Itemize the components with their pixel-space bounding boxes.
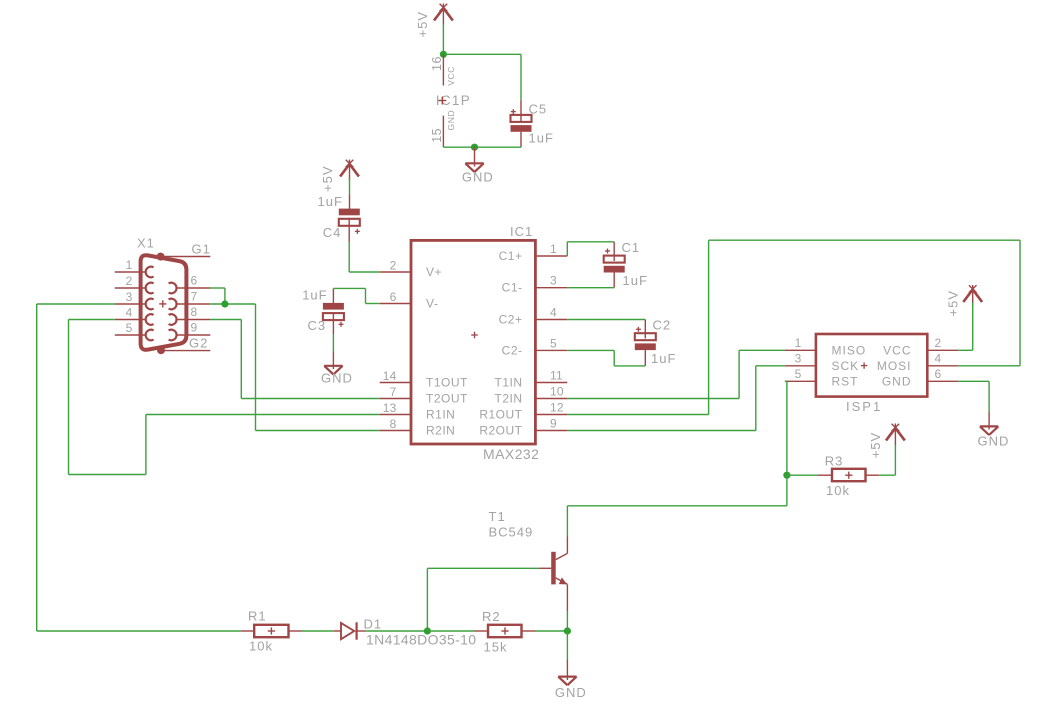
wire ISP1 GND to ground xyxy=(958,381,989,411)
svg-text:15: 15 xyxy=(430,128,444,143)
svg-text:C1: C1 xyxy=(622,240,641,255)
X1 pin 4 xyxy=(115,314,154,325)
wire C3 to ground xyxy=(332,334,334,352)
pin number 11 (IC1 T1IN) xyxy=(550,369,563,383)
svg-text:9: 9 xyxy=(550,417,557,431)
pin name C1+ xyxy=(499,249,523,263)
label +5V (top, rotated) xyxy=(415,11,430,38)
connector X1 shell xyxy=(141,255,187,350)
svg-text:GND: GND xyxy=(462,170,494,185)
pin number 5 (ISP1) xyxy=(795,367,802,381)
wire +5V to C4 xyxy=(349,178,351,195)
svg-text:6: 6 xyxy=(390,290,397,304)
svg-text:T2OUT: T2OUT xyxy=(426,392,468,406)
label C4 xyxy=(323,225,342,240)
svg-text:R1: R1 xyxy=(248,609,267,624)
svg-text:9: 9 xyxy=(191,321,198,335)
svg-text:5: 5 xyxy=(795,367,802,381)
ISP1 pin 5 RST xyxy=(785,380,816,382)
ground bottom (emitter) xyxy=(558,660,576,686)
capacitor C2 xyxy=(635,320,656,366)
svg-text:C2: C2 xyxy=(653,317,672,332)
value 1uF (C4) xyxy=(318,194,343,209)
junction D1-R2-base xyxy=(424,627,431,634)
wire R1 to D1 xyxy=(302,630,334,632)
svg-text:1uF: 1uF xyxy=(529,131,554,146)
wire T1 base to junction xyxy=(427,568,539,631)
wire T2IN to ISP1 MISO xyxy=(567,350,785,398)
wire ISP1 RST down to junction xyxy=(785,381,787,475)
pin number 5 (X1) xyxy=(126,321,133,335)
svg-text:VCC: VCC xyxy=(883,343,911,357)
label GND (top) xyxy=(462,170,494,185)
svg-text:1N4148DO35-10: 1N4148DO35-10 xyxy=(366,632,476,648)
pin name C1- xyxy=(502,281,523,295)
pin number 2 (ISP1) xyxy=(935,336,942,350)
svg-text:X1: X1 xyxy=(137,235,155,250)
svg-text:8: 8 xyxy=(390,417,397,431)
value 10k (R1) xyxy=(249,639,273,654)
junction X1 pins 6-7 xyxy=(221,300,228,307)
svg-text:1: 1 xyxy=(126,258,133,272)
pin name SCK xyxy=(832,359,860,373)
IC1 pin 11 T1IN xyxy=(536,382,568,384)
wire junction to R2 xyxy=(427,630,474,632)
pin name G2 xyxy=(189,336,208,351)
wire T1 emitter to junction xyxy=(566,611,568,631)
svg-text:2: 2 xyxy=(390,259,397,273)
svg-text:11: 11 xyxy=(550,369,563,383)
label +5V (ISP1, rotated) xyxy=(946,290,961,317)
label D1 xyxy=(364,617,383,632)
svg-text:10k: 10k xyxy=(826,483,850,498)
svg-text:10k: 10k xyxy=(249,639,273,654)
svg-text:C2+: C2+ xyxy=(499,313,523,327)
X1 pin 8 xyxy=(169,314,211,325)
ISP1 pin 2 VCC xyxy=(927,349,958,351)
op IC1P label xyxy=(436,93,471,108)
IC1 pin 13 R1IN xyxy=(380,414,411,416)
X1 pin 7 xyxy=(169,299,211,310)
svg-text:8: 8 xyxy=(191,305,198,319)
svg-text:MOSI: MOSI xyxy=(877,359,912,373)
pin number 9 (X1) xyxy=(191,321,198,335)
svg-text:MAX232: MAX232 xyxy=(483,446,539,462)
IC1 pin 4 C2+ xyxy=(536,319,568,321)
X1 pin 5 xyxy=(115,330,154,341)
wire junction to C5 top xyxy=(443,54,521,100)
pin number 13 (IC1 R1IN) xyxy=(383,401,397,415)
svg-text:R1OUT: R1OUT xyxy=(479,408,522,422)
svg-text:14: 14 xyxy=(383,369,397,383)
resistor R2 xyxy=(475,625,536,637)
ISP1 pin 6 GND xyxy=(927,380,958,382)
svg-text:10: 10 xyxy=(550,385,564,399)
svg-text:T1: T1 xyxy=(489,509,506,524)
svg-text:R2: R2 xyxy=(482,609,501,624)
svg-text:T2IN: T2IN xyxy=(494,392,522,406)
ISP1 pin 1 MISO xyxy=(785,349,816,351)
pin number 6 (X1) xyxy=(191,274,198,288)
pin name R2IN xyxy=(426,424,455,438)
label C2 xyxy=(653,317,672,332)
power +5V symbol (ISP1 VCC) xyxy=(963,285,982,306)
IC1 pin 9 R2OUT xyxy=(536,430,568,432)
svg-text:4: 4 xyxy=(550,306,557,320)
pin name R1OUT xyxy=(479,408,522,422)
svg-text:4: 4 xyxy=(935,352,942,366)
wire C4 to IC1 V+ xyxy=(349,242,380,272)
pin number 16 xyxy=(430,56,444,71)
wire IC1 C2+ to C2 xyxy=(567,319,645,321)
svg-text:7: 7 xyxy=(191,290,198,304)
svg-text:GND: GND xyxy=(321,370,353,385)
label C5 xyxy=(529,102,548,117)
pin number 10 (IC1 T2IN) xyxy=(550,385,564,399)
svg-text:16: 16 xyxy=(430,56,444,71)
svg-text:IC1: IC1 xyxy=(510,224,533,239)
svg-text:RST: RST xyxy=(832,374,859,388)
pin number 15 xyxy=(430,128,444,143)
ISP1 pin 3 SCK xyxy=(785,365,816,367)
svg-text:BC549: BC549 xyxy=(489,525,534,540)
pin name V- xyxy=(426,297,438,311)
IC1 pin 8 R2IN xyxy=(380,430,411,432)
X1 pin 9 xyxy=(169,330,211,341)
X1 pin 2 xyxy=(115,283,154,294)
label GND (ISP1) xyxy=(978,433,1010,448)
ISP1 pin 4 MOSI xyxy=(927,365,958,367)
svg-text:G2: G2 xyxy=(189,336,208,351)
svg-text:1uF: 1uF xyxy=(623,273,648,288)
capacitor C3 xyxy=(323,288,344,334)
svg-text:GND: GND xyxy=(446,110,456,131)
svg-text:GND: GND xyxy=(555,685,587,700)
svg-text:1uF: 1uF xyxy=(651,351,676,366)
X1 pin G1 xyxy=(163,256,210,258)
svg-text:SCK: SCK xyxy=(832,359,860,373)
svg-text:T1IN: T1IN xyxy=(494,376,522,390)
pin name VCC xyxy=(883,343,911,357)
IC1 pin 5 C2- xyxy=(536,349,568,351)
pin number 3 (ISP1) xyxy=(795,352,802,366)
svg-text:1uF: 1uF xyxy=(318,194,343,209)
pin name VCC (rotated) xyxy=(446,66,456,86)
svg-text:GND: GND xyxy=(978,433,1010,448)
pin number 1 (ISP1) xyxy=(795,336,802,350)
svg-text:T1OUT: T1OUT xyxy=(426,376,468,390)
wire C1 to IC1 C1- xyxy=(567,287,614,289)
value 1uF (C2) xyxy=(651,351,676,366)
label R1 xyxy=(248,609,267,624)
svg-text:4: 4 xyxy=(126,306,133,320)
svg-text:C2-: C2- xyxy=(502,343,523,357)
pin number 3 (IC1 C1-) xyxy=(550,274,557,288)
label GND (bottom) xyxy=(555,685,587,700)
wire R2 to emitter junction xyxy=(535,630,567,632)
value MAX232 xyxy=(483,446,539,462)
svg-text:R2OUT: R2OUT xyxy=(479,424,522,438)
IC1 pin 2 V+ xyxy=(380,271,411,273)
pin name MOSI xyxy=(877,359,912,373)
IC1 pin 7 T2OUT xyxy=(380,398,411,400)
capacitor C1 xyxy=(604,242,625,288)
svg-text:1: 1 xyxy=(550,242,557,256)
ground top (below IC1P) xyxy=(465,147,483,172)
label GND (C3) xyxy=(321,370,353,385)
pin name R2OUT xyxy=(479,424,522,438)
pin number 4 (X1) xyxy=(126,306,133,320)
pin number 1 (X1) xyxy=(126,258,133,272)
wire junction to T1 collector xyxy=(567,475,787,536)
svg-text:ISP1: ISP1 xyxy=(846,399,882,414)
svg-text:R1IN: R1IN xyxy=(426,408,455,422)
pin name T1IN xyxy=(494,376,522,390)
svg-text:+5V: +5V xyxy=(415,11,430,38)
svg-text:7: 7 xyxy=(390,385,397,399)
label IC1 xyxy=(510,224,533,239)
X1 pin 6 xyxy=(169,283,211,294)
value 1uF (C3) xyxy=(302,288,327,303)
svg-text:1: 1 xyxy=(795,336,802,350)
pin name R1IN xyxy=(426,408,455,422)
value 10k (R3) xyxy=(826,483,850,498)
wire IC1 C2- to C2 xyxy=(567,350,645,366)
pin name GND (rotated) xyxy=(446,110,456,131)
label ISP1 xyxy=(846,399,882,414)
wire +5V to junction xyxy=(442,24,444,55)
junction at IC1P pin 16 xyxy=(440,51,447,58)
IC1 pin 1 C1+ xyxy=(536,255,568,257)
resistor R3 xyxy=(818,469,879,481)
pin name C2+ xyxy=(499,313,523,327)
power +5V symbol (R3) xyxy=(886,424,905,445)
IC1 pin 12 R1OUT xyxy=(536,414,568,416)
svg-text:5: 5 xyxy=(126,321,133,335)
junction RST-R3 xyxy=(783,472,790,479)
ground below C3 xyxy=(324,352,342,375)
pin name T1OUT xyxy=(426,376,468,390)
IC1P pin 15 GND xyxy=(442,116,444,148)
pin number 2 (IC1 V+) xyxy=(390,259,397,273)
svg-text:R2IN: R2IN xyxy=(426,424,455,438)
pin number 8 (X1) xyxy=(191,305,198,319)
wire C3 to IC1 V- xyxy=(333,288,379,303)
svg-text:2: 2 xyxy=(935,336,942,350)
pin number 12 (IC1 R1OUT) xyxy=(550,401,564,415)
svg-text:C1+: C1+ xyxy=(499,249,523,263)
capacitor C4 xyxy=(339,194,360,242)
IC1 pin 6 V- xyxy=(380,303,411,305)
part origin cross (ISP1) xyxy=(861,362,867,368)
label X1 xyxy=(137,235,155,250)
op-amp IC1 MAX232 body xyxy=(411,240,535,444)
label R3 xyxy=(825,453,844,468)
wire X1 pin6 to junction xyxy=(210,288,225,304)
value 15k (R2) xyxy=(484,640,508,655)
label T1 xyxy=(489,509,506,524)
pin number 7 (IC1 T2OUT) xyxy=(390,385,397,399)
wire IC1 C1+ to C1 xyxy=(567,242,614,256)
svg-text:1uF: 1uF xyxy=(302,288,327,303)
pin name RST xyxy=(832,374,859,388)
label +5V (R3, rotated) xyxy=(868,432,883,459)
junction at top GND xyxy=(471,144,478,151)
wire D1 to junction xyxy=(366,630,427,632)
value 1uF (C1) xyxy=(623,273,648,288)
power +5V symbol (C4) xyxy=(340,160,359,181)
IC1 pin 10 T2IN xyxy=(536,398,568,400)
svg-text:V+: V+ xyxy=(426,265,442,279)
pin name V+ xyxy=(426,265,442,279)
transistor T1 BC549 xyxy=(540,537,568,612)
wire junction to ground (bottom) xyxy=(566,631,568,660)
svg-text:15k: 15k xyxy=(484,640,508,655)
X1 mounting dot top xyxy=(157,253,165,261)
power +5V symbol (top, IC1P VCC) xyxy=(434,4,453,25)
svg-text:GND: GND xyxy=(882,374,912,388)
svg-text:C3: C3 xyxy=(308,318,327,333)
value 1N4148DO35-10 xyxy=(366,632,476,648)
pin number 7 (X1) xyxy=(191,290,198,304)
svg-text:D1: D1 xyxy=(364,617,383,632)
svg-text:MISO: MISO xyxy=(832,343,867,357)
pin number 8 (IC1 R2IN) xyxy=(390,417,397,431)
pin number 5 (IC1 C2-) xyxy=(550,336,557,350)
pin name MISO xyxy=(832,343,867,357)
pin name GND xyxy=(882,374,912,388)
svg-text:+5V: +5V xyxy=(320,166,335,193)
svg-text:C1-: C1- xyxy=(502,281,523,295)
IC1P pin 16 VCC xyxy=(442,54,444,85)
diode D1 xyxy=(334,622,367,639)
X1 pin 3 xyxy=(115,299,154,310)
svg-text:VCC: VCC xyxy=(446,66,456,86)
svg-text:+5V: +5V xyxy=(946,290,961,317)
connector ISP1 body xyxy=(816,334,927,397)
wire X1 pin4 to IC1 R1IN xyxy=(69,320,380,475)
label R2 xyxy=(482,609,501,624)
capacitor C5 xyxy=(511,100,532,147)
wire R1OUT to ISP1 MOSI xyxy=(567,240,1020,414)
X1 pin G2 xyxy=(163,350,210,352)
pin number 14 (IC1 T1OUT) xyxy=(383,369,397,383)
pin number 3 (X1) xyxy=(126,290,133,304)
pin number 1 (IC1 C1+) xyxy=(550,242,557,256)
pin name T2IN xyxy=(494,392,522,406)
wire X1 pin3 to R1 (net RX) xyxy=(37,304,241,631)
junction R2-emitter-GND xyxy=(564,627,571,634)
label C1 xyxy=(622,240,641,255)
pin number 4 (IC1 C2+) xyxy=(550,306,557,320)
svg-text:5: 5 xyxy=(550,336,557,350)
pin number 9 (IC1 R2OUT) xyxy=(550,417,557,431)
pin name C2- xyxy=(502,343,523,357)
label C3 xyxy=(308,318,327,333)
svg-text:+5V: +5V xyxy=(868,432,883,459)
svg-text:3: 3 xyxy=(126,290,133,304)
pin name G1 xyxy=(192,242,211,257)
svg-text:2: 2 xyxy=(126,274,133,288)
pin number 4 (ISP1) xyxy=(935,352,942,366)
wire IC1P pin15 to C5 bottom xyxy=(443,146,521,148)
svg-text:G1: G1 xyxy=(192,242,211,257)
X1 mounting dot bottom xyxy=(157,346,165,354)
X1 pin 1 xyxy=(115,267,154,278)
resistor R1 xyxy=(241,625,302,637)
svg-text:3: 3 xyxy=(795,352,802,366)
IC1 pin 3 C1- xyxy=(536,287,568,289)
value BC549 xyxy=(489,525,534,540)
svg-text:3: 3 xyxy=(550,274,557,288)
pin number 6 (ISP1) xyxy=(935,367,942,381)
svg-text:V-: V- xyxy=(426,297,438,311)
svg-text:C5: C5 xyxy=(529,102,548,117)
wire R2OUT to ISP1 SCK xyxy=(567,366,785,431)
svg-text:12: 12 xyxy=(550,401,564,415)
pin name T2OUT xyxy=(426,392,468,406)
value 1uF (C5) xyxy=(529,131,554,146)
wire R3 to +5V xyxy=(879,444,895,476)
pin number 6 (IC1 V-) xyxy=(390,290,397,304)
ground below ISP1 xyxy=(980,412,998,436)
wire junction to R3 xyxy=(787,474,818,476)
svg-text:C4: C4 xyxy=(323,225,342,240)
svg-text:13: 13 xyxy=(383,401,397,415)
wire X1 pin8 to IC1 T2OUT xyxy=(210,320,379,399)
pin number 2 (X1) xyxy=(126,274,133,288)
wire ISP1 VCC to +5V xyxy=(958,303,973,350)
IC1 pin 14 T1OUT xyxy=(380,382,411,384)
svg-text:R3: R3 xyxy=(825,453,844,468)
svg-text:6: 6 xyxy=(191,274,198,288)
label +5V (C4, rotated) xyxy=(320,166,335,193)
wire X1 pin7 junction to IC1 R2IN xyxy=(210,304,379,431)
svg-text:6: 6 xyxy=(935,367,942,381)
